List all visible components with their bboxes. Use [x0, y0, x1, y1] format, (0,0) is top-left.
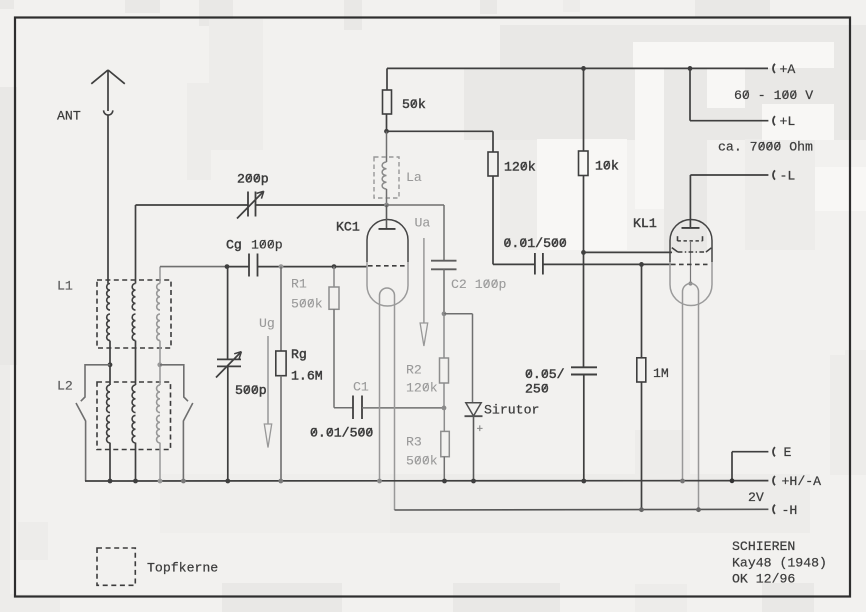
KL1 suppressor grid (dash-dot) [672, 248, 712, 252]
wire -H bus [395, 508, 769, 511]
wire 50k top lead [386, 68, 388, 90]
node anode/200p/C2 [384, 203, 389, 208]
svg-text:Sirutor: Sirutor [484, 403, 539, 418]
node R2/R3/C1 [442, 406, 447, 411]
node -H bus KL1 filament [696, 507, 701, 512]
node R1 top [332, 264, 337, 269]
svg-text:KC1: KC1 [336, 220, 360, 235]
wire L2w2 bottom [135, 443, 137, 481]
resistor 50k [383, 90, 392, 114]
wire node to Sirutor [444, 314, 473, 403]
svg-text:-L: -L [780, 169, 796, 184]
node L1/L2 junction left [108, 362, 113, 367]
wire 500p top lead [227, 267, 229, 359]
node bus 500p [225, 479, 230, 484]
svg-text:120k: 120k [504, 160, 536, 175]
label Kay48 (1948) [732, 555, 827, 570]
label 10k value [595, 159, 619, 174]
svg-text:E: E [784, 445, 792, 460]
KL1 plate [682, 227, 700, 229]
wire to La [386, 131, 388, 162]
svg-text:50k: 50k [402, 97, 426, 112]
capacitor 0.01/500 [535, 253, 543, 275]
svg-text:-H: -H [782, 503, 798, 518]
capacitor C1 [353, 396, 362, 420]
KC1 filament [380, 288, 395, 510]
label R2 [406, 363, 422, 378]
svg-text:+H/-A: +H/-A [782, 474, 822, 489]
wire 120k top lead [492, 131, 494, 152]
label +H/-A [782, 474, 822, 489]
node bus KC1 filament [377, 479, 382, 484]
terminal +A [773, 64, 775, 73]
tube KL1 envelope [670, 220, 712, 306]
capacitor C2 100p [431, 261, 457, 270]
KL1 filament [683, 284, 699, 511]
wire 200p line left [136, 204, 249, 206]
label R3 value 500k [406, 454, 438, 469]
wire R1 to C1 [334, 309, 353, 407]
label 0.05/ value [525, 367, 565, 382]
label R1 value 500k [291, 297, 323, 312]
wire anode node to C2 [387, 205, 445, 260]
svg-text:Topfkerne: Topfkerne [147, 561, 218, 576]
KC1 plate lead [386, 205, 388, 229]
svg-text:+L: +L [780, 114, 796, 129]
wire Rg bottom lead [280, 376, 282, 481]
terminal +H/-A [773, 476, 775, 485]
svg-text:C1: C1 [353, 380, 369, 395]
label E [784, 445, 792, 460]
tube KC1 envelope [367, 219, 408, 305]
legend Topfkerne dashed box [97, 548, 135, 585]
label 250 value [525, 382, 549, 397]
wire L1w2 top to 200p line [135, 205, 137, 284]
KL1 center lead [690, 241, 692, 284]
wire R1 top lead [333, 267, 335, 287]
label La [406, 170, 422, 185]
antenna [91, 70, 125, 282]
wire R2 top lead [443, 314, 445, 358]
node bus Sirutor [471, 479, 476, 484]
svg-text:KL1: KL1 [633, 216, 657, 231]
KL1 control grid (dashed) [671, 263, 708, 265]
svg-text:Cg: Cg [226, 238, 242, 253]
wire R3 top lead [443, 408, 445, 432]
KC1 plate [379, 228, 396, 230]
label R3 [406, 435, 422, 450]
node L1/L2 junction right [157, 362, 162, 367]
svg-text:C2 100p: C2 100p [451, 277, 506, 292]
wire L1w2 through to L2w2 [135, 341, 137, 385]
svg-text:Rg: Rg [291, 347, 307, 362]
resistor R1 [329, 287, 339, 309]
label 0.01/500 value [504, 236, 567, 251]
label C1 [353, 380, 369, 395]
label L1 [57, 279, 73, 294]
variable capacitor 200p [237, 191, 264, 218]
svg-text:Ug: Ug [259, 316, 275, 331]
label Cg [226, 238, 242, 253]
resistor 1M [637, 358, 646, 382]
wire 120k bottom lead [493, 176, 535, 264]
label Cg value 100p [251, 238, 283, 253]
svg-text:R2: R2 [406, 363, 422, 378]
node bus S2 [181, 479, 186, 484]
svg-text:ca. 7000 Ohm: ca. 7000 Ohm [718, 140, 813, 155]
label KL1 [633, 216, 657, 231]
wire 1M bottom lead [641, 382, 643, 510]
svg-text:R3: R3 [406, 435, 422, 450]
L2 winding 1 [107, 385, 110, 443]
wire Cg to KC1 grid [258, 266, 368, 268]
svg-text:120k: 120k [406, 381, 438, 396]
label ANT [57, 109, 81, 124]
coil L1 dashed box (Topfkern) [97, 280, 171, 348]
terminal -H [773, 505, 775, 514]
label SCHIEREN [732, 539, 795, 554]
svg-text:R1: R1 [291, 277, 307, 292]
wire L1w3 bottom [159, 341, 161, 364]
terminal +L [773, 116, 775, 125]
coil L2 dashed box (Topfkern) [97, 382, 171, 450]
svg-text:SCHIEREN: SCHIEREN [732, 539, 795, 554]
arrow Ua (anode voltage) [420, 238, 428, 346]
label Sirutor [484, 403, 539, 418]
svg-text:10k: 10k [595, 159, 619, 174]
resistor 120k [488, 152, 498, 176]
diode Sirutor [465, 403, 483, 416]
node Rg top [279, 264, 284, 269]
svg-text:L1: L1 [57, 279, 73, 294]
label 120k value [504, 160, 536, 175]
wire R3 bottom lead [443, 457, 445, 481]
L1 winding 1 [107, 284, 110, 341]
node bus Rg [278, 479, 283, 484]
svg-text:1.6M: 1.6M [291, 369, 323, 384]
wire Sirutor to bus [473, 416, 475, 481]
label 50k value [402, 97, 426, 112]
label 60 - 100 V [734, 88, 813, 103]
KC1 grid (dashed) [368, 265, 407, 267]
svg-text:100p: 100p [251, 238, 283, 253]
L1 winding 3 [157, 284, 160, 341]
wire L1w3 to Cg [160, 266, 249, 268]
svg-text:0.01/500: 0.01/500 [504, 236, 567, 251]
node 10k top bus [581, 66, 586, 71]
label Topfkerne [147, 561, 218, 576]
svg-text:0.01/500: 0.01/500 [310, 426, 373, 441]
label C1 value 0.01/500 [310, 426, 373, 441]
label ca. 7000 Ohm [718, 140, 813, 155]
wire C2 to R2 node [443, 269, 445, 314]
svg-text:500k: 500k [406, 454, 438, 469]
L1 winding 2 [132, 284, 135, 341]
wire R2 bottom lead [443, 383, 445, 408]
label + polarity [477, 424, 484, 436]
svg-text:La: La [406, 170, 422, 185]
node 1M top [639, 262, 644, 267]
label 200p value [237, 172, 269, 187]
svg-text:200p: 200p [237, 172, 269, 187]
wire 50k node to 120k [387, 130, 494, 132]
label 500p value [235, 383, 267, 398]
label Ug [259, 316, 275, 331]
node bus E junction [730, 478, 735, 483]
label R2 value 120k [406, 381, 438, 396]
label KC1 [336, 220, 360, 235]
wire 50k bottom lead [386, 114, 388, 131]
node bus R3 [442, 479, 447, 484]
wire main bus +H/-A [85, 480, 768, 482]
resistor Rg [276, 351, 286, 376]
KL1 screen bracket [678, 236, 703, 241]
node anode-resistor junction [384, 129, 389, 134]
capacitor 0.05/250 [571, 367, 597, 374]
wire 0.01/500 to KL1 grid [543, 263, 671, 265]
wire +L [690, 68, 768, 120]
switch S2 (right of L2) [160, 365, 193, 481]
L2 winding 2 [132, 385, 135, 443]
svg-text:1M: 1M [653, 366, 669, 381]
wire L2w3 bottom [159, 443, 161, 481]
svg-text:500k: 500k [291, 297, 323, 312]
wire 10k bottom lead [583, 176, 585, 368]
node bus L2w3 [158, 479, 163, 484]
label L2 [57, 379, 73, 394]
label C2 100p [451, 277, 506, 292]
node 500p top [225, 264, 230, 269]
label OK 12/96 [732, 571, 795, 586]
wire L2w1 bottom [109, 443, 111, 481]
node top bus to +A [688, 66, 693, 71]
wire L1w3 top [159, 267, 161, 284]
label 1M value [653, 366, 669, 381]
label +L [780, 114, 796, 129]
KL1 plate lead and -L riser [689, 175, 691, 228]
switch S1 (left of L2) [76, 365, 110, 481]
svg-text:+A: +A [780, 62, 796, 77]
label -H [782, 503, 798, 518]
wire 10k top lead [583, 68, 585, 151]
wire top bus [387, 67, 768, 69]
label Rg value 1.6M [291, 369, 323, 384]
node screen junction [581, 250, 586, 255]
svg-text:Kay48 (1948): Kay48 (1948) [732, 555, 827, 570]
resistor R3 [441, 431, 450, 456]
node bus KL1 filament [680, 479, 685, 484]
capacitor Cg 100p [249, 254, 258, 277]
arrow Ug (grid voltage) [264, 336, 271, 448]
node -H bus 1M [639, 507, 644, 512]
terminal -L [773, 170, 775, 179]
svg-text:250: 250 [525, 382, 549, 397]
inductor La dashed box [374, 157, 399, 198]
wire C1 to R2/R3 node [362, 407, 444, 409]
label R1 [291, 277, 307, 292]
wire L2w3 top [159, 364, 161, 385]
node bus L2w2 [133, 479, 138, 484]
wire La to anode node [386, 189, 388, 205]
wire screen feed to KL1 [584, 251, 673, 253]
wire -L [690, 174, 768, 176]
wire E branch [732, 452, 768, 481]
wire 500p bottom lead [227, 366, 229, 481]
svg-text:+: + [477, 424, 484, 436]
svg-text:500p: 500p [235, 383, 267, 398]
inductor La winding [382, 162, 386, 189]
wire 0.05 bottom lead [583, 375, 585, 482]
node bus 0.05 cap [581, 479, 586, 484]
node C2/R2/Sirutor [442, 311, 447, 316]
svg-text:OK 12/96: OK 12/96 [732, 571, 795, 586]
wire L2w1 top [109, 364, 111, 385]
wire 200p to anode node [256, 204, 387, 206]
label -L [780, 169, 796, 184]
svg-text:Ua: Ua [415, 216, 431, 231]
svg-text:2V: 2V [748, 490, 764, 505]
wire antenna to L1w1 [108, 282, 110, 364]
KL1 cathode node [688, 281, 692, 285]
variable capacitor 500p [216, 352, 241, 378]
resistor R2 [440, 358, 449, 383]
resistor 10k [579, 151, 589, 176]
label 2V [748, 490, 764, 505]
node bus L2w1 [108, 479, 113, 484]
L2 winding 3 [157, 385, 160, 443]
svg-text:L2: L2 [57, 379, 73, 394]
wire Rg top lead [280, 267, 282, 351]
label Rg [291, 347, 307, 362]
svg-text:ANT: ANT [57, 109, 81, 124]
svg-text:60 - 100 V: 60 - 100 V [734, 88, 813, 103]
terminal E [773, 447, 775, 456]
label Ua [415, 216, 431, 231]
label +A [780, 62, 796, 77]
wire 1M top lead [641, 264, 643, 357]
